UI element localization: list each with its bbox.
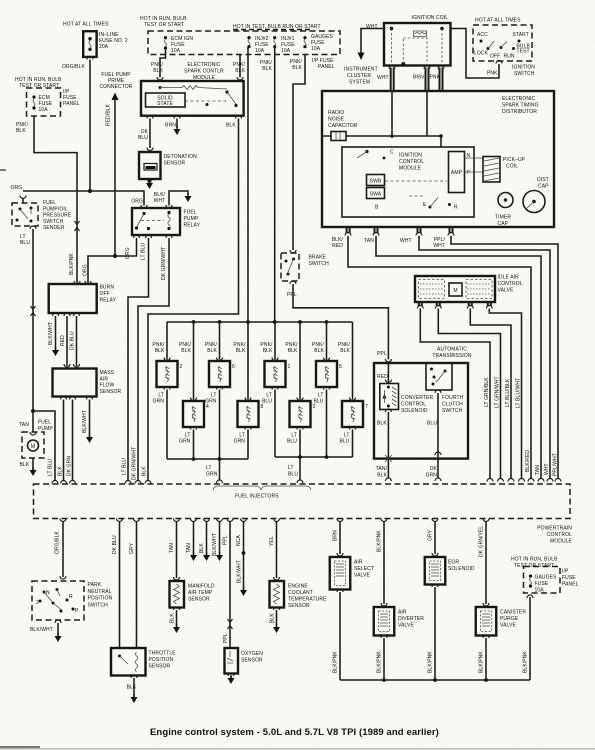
wire LT BLU collector (right injector group) — [275, 456, 353, 458]
svg-text:GRY: GRY — [428, 529, 434, 541]
svg-text:IGNITION COIL: IGNITION COIL — [412, 15, 449, 21]
svg-text:SPARK TIMING: SPARK TIMING — [502, 103, 539, 109]
svg-text:SWITCH: SWITCH — [442, 408, 463, 414]
module U1 ESC box — [141, 81, 244, 116]
wire LT GRN collector (left injector group) — [167, 458, 248, 460]
svg-text:FLOW: FLOW — [100, 383, 115, 389]
wire BLK/PNK below canister purge valve — [483, 635, 489, 638]
svg-text:WHT: WHT — [154, 198, 166, 204]
svg-text:BLK: BLK — [127, 685, 137, 691]
svg-text:BLU: BLU — [138, 135, 148, 141]
svg-text:PNK: PNK — [487, 71, 498, 77]
injector 2 — [157, 361, 183, 387]
svg-text:FOURTH: FOURTH — [442, 395, 464, 401]
node: RED/BLK joins ORG — [113, 254, 117, 258]
wire WHT dist to PCM — [419, 236, 550, 479]
ICM switch B pin — [385, 181, 451, 209]
svg-text:THROTTLE: THROTTLE — [149, 651, 177, 657]
svg-text:BRAKE: BRAKE — [309, 255, 327, 261]
svg-text:AMP: AMP — [451, 170, 463, 176]
svg-text:SELECT: SELECT — [354, 566, 374, 572]
fuse GAUGES (top) — [303, 36, 306, 48]
connector at converter box top — [385, 359, 391, 362]
node: bus junction — [325, 320, 329, 324]
wire injector riser — [193, 322, 195, 400]
svg-text:MANIFOLD: MANIFOLD — [188, 584, 215, 590]
svg-text:POSITION: POSITION — [149, 657, 174, 663]
svg-text:COOLANT: COOLANT — [288, 590, 313, 596]
svg-text:GRN: GRN — [153, 399, 165, 405]
svg-text:SENSOR: SENSOR — [241, 658, 263, 664]
injector 8 — [238, 401, 264, 427]
svg-text:C: C — [390, 150, 394, 156]
ground below fuel pump — [32, 458, 34, 470]
svg-text:IGNITION: IGNITION — [512, 65, 535, 71]
wire injector riser — [247, 322, 249, 400]
svg-text:NOISE: NOISE — [328, 117, 345, 123]
svg-text:BLU: BLU — [427, 421, 437, 427]
svg-text:VALVE: VALVE — [354, 573, 370, 579]
svg-text:TAN: TAN — [169, 543, 175, 553]
svg-text:GRN: GRN — [234, 439, 246, 445]
connector below fuse F2 — [87, 57, 93, 60]
wire PNK/BLK to ESC module right input — [239, 55, 241, 78]
burn-off relay bottom connectors — [53, 313, 59, 316]
coil secondary stems to distributor — [391, 68, 443, 92]
svg-text:BRN: BRN — [333, 530, 339, 541]
svg-text:DK BLU: DK BLU — [112, 535, 118, 554]
wire BLK below ECT + ground — [274, 607, 280, 610]
svg-text:BLK/PNK: BLK/PNK — [333, 651, 339, 673]
wire capacitor feed line — [322, 136, 441, 147]
svg-text:PPL: PPL — [287, 292, 297, 298]
wire PPL PCM to oxygen sensor — [227, 519, 233, 522]
svg-text:BLK/PNK: BLK/PNK — [428, 651, 434, 673]
svg-text:GRY: GRY — [129, 542, 135, 554]
svg-text:TAN: TAN — [186, 543, 192, 553]
wire ORG/BLK from fuse F2 down to ORG node — [89, 60, 91, 192]
switch: park neutral position switch dashed box — [32, 581, 84, 620]
svg-text:DK GRN/WHT: DK GRN/WHT — [132, 447, 138, 480]
svg-text:BLU: BLU — [287, 439, 297, 445]
sensor: manifold air temp sensor box — [170, 581, 185, 608]
svg-text:CONNECTOR: CONNECTOR — [99, 84, 132, 90]
svg-text:BLK: BLK — [377, 473, 387, 479]
svg-text:ELECTRONIC: ELECTRONIC — [502, 96, 536, 102]
relay interior — [135, 211, 171, 230]
svg-text:RED: RED — [332, 243, 343, 249]
svg-text:CAP: CAP — [498, 221, 509, 227]
svg-text:FUSE: FUSE — [562, 575, 576, 581]
wire PNK/BLK from ECM fuse jog to x77 down to burn-off relay — [34, 116, 77, 284]
injector 7 — [342, 401, 368, 427]
wire injector riser — [326, 322, 328, 360]
node: fuel pump junction — [31, 409, 35, 413]
distributor bottom stems — [347, 227, 453, 233]
wire BRN PCM to air select valve — [337, 519, 343, 522]
svg-text:HOT AT ALL TIMES: HOT AT ALL TIMES — [63, 22, 109, 28]
wire BLK/WHT stub with down arrow — [169, 191, 188, 206]
svg-text:SYSTEM: SYSTEM — [349, 80, 370, 86]
connector TAN/BLK into PCM — [385, 478, 391, 481]
svg-text:P: P — [75, 608, 79, 614]
wire BLK/PNK common ground bus — [340, 679, 530, 681]
svg-text:HOT AT ALL TIMES: HOT AT ALL TIMES — [475, 18, 521, 24]
wire injector lower lead — [217, 387, 223, 390]
wire PNK/BLK injector feed bus — [167, 321, 353, 323]
svg-text:BLK: BLK — [263, 348, 273, 354]
svg-text:10A: 10A — [311, 46, 321, 52]
svg-text:PPL: PPL — [223, 535, 229, 545]
svg-text:LT BLU/WHT: LT BLU/WHT — [516, 378, 522, 408]
svg-text:10A: 10A — [535, 588, 545, 594]
svg-text:RUN: RUN — [504, 54, 515, 60]
svg-text:GRN: GRN — [179, 439, 191, 445]
fuse ECM IGN — [164, 36, 167, 50]
svg-text:ORG/BLK: ORG/BLK — [55, 531, 61, 554]
svg-text:IDLE AIR: IDLE AIR — [498, 275, 520, 281]
svg-text:BLK: BLK — [170, 613, 176, 623]
svg-text:FUSE: FUSE — [535, 581, 549, 587]
svg-text:POWERTRAIN: POWERTRAIN — [537, 526, 572, 532]
svg-text:TAN/: TAN/ — [376, 466, 388, 472]
svg-text:ENGINE: ENGINE — [288, 584, 308, 590]
module: powertrain control module dashed band — [34, 484, 571, 519]
svg-text:POSITION: POSITION — [88, 596, 113, 602]
svg-text:PPL: PPL — [223, 633, 229, 643]
svg-text:2: 2 — [36, 600, 39, 606]
svg-text:AIR TEMP: AIR TEMP — [188, 590, 213, 596]
wire injector riser — [219, 322, 221, 360]
wire BLK solenoid to box edge and PCM — [385, 409, 392, 479]
svg-text:ORG: ORG — [125, 247, 131, 259]
svg-text:MODULE: MODULE — [550, 539, 573, 545]
injector 5 — [316, 361, 342, 387]
svg-text:SOLENOID: SOLENOID — [401, 408, 428, 414]
fuse panel dashed box (ECM IGN / INJ fuses) — [148, 31, 340, 55]
svg-text:WHT: WHT — [544, 463, 550, 475]
node: bus junction — [298, 320, 302, 324]
svg-text:MASS: MASS — [100, 370, 115, 376]
svg-text:LT GRN/BLK: LT GRN/BLK — [484, 377, 490, 407]
wire BLK/PNK below air diverter valve — [381, 635, 387, 638]
wire injector lower lead — [164, 387, 170, 390]
node: bus junction — [192, 320, 196, 324]
wire LT GRN drop to PCM — [219, 459, 221, 481]
relay coil box SWA — [367, 188, 385, 199]
wire BLK from ESC jog left down to PCM — [148, 119, 239, 482]
svg-text:WHT: WHT — [400, 238, 412, 244]
svg-text:6: 6 — [232, 364, 235, 370]
connector below oil switch — [30, 226, 36, 229]
svg-text:RADIO: RADIO — [328, 110, 344, 116]
svg-text:3: 3 — [313, 404, 316, 410]
svg-text:R: R — [69, 594, 73, 600]
svg-text:LT BLU/BLK: LT BLU/BLK — [505, 378, 511, 407]
svg-text:BLU: BLU — [288, 472, 298, 478]
wire LT BLU MAF to PCM — [63, 400, 65, 482]
wire up to gauges fuse — [529, 597, 531, 680]
fuse F2 in-line fuse no.2 box — [83, 31, 96, 57]
svg-text:BLK/PNK: BLK/PNK — [479, 651, 485, 673]
fuse ECM dashed I/P panel box — [27, 88, 61, 116]
svg-text:DK GRN/WHT: DK GRN/WHT — [161, 247, 167, 280]
ignition switch interior — [480, 40, 521, 51]
wire WHT stem into distributor — [391, 91, 393, 136]
svg-text:SWA: SWA — [370, 192, 382, 198]
fuse GAUGES dashed box (bottom) — [524, 567, 561, 594]
IAC bottom stems + connectors — [419, 302, 491, 306]
svg-text:TEMPERATURE: TEMPERATURE — [288, 597, 327, 603]
svg-text:SWITCH: SWITCH — [43, 219, 64, 225]
svg-text:BLK: BLK — [155, 348, 165, 354]
wire injector lower lead — [191, 427, 197, 430]
svg-text:COIL: COIL — [506, 164, 518, 170]
svg-text:PPL/WHT: PPL/WHT — [553, 453, 559, 476]
svg-text:CANISTER: CANISTER — [500, 610, 526, 616]
wire DK BLU to detonation sensor — [149, 119, 151, 149]
svg-text:TIMER: TIMER — [495, 215, 511, 221]
svg-text:CONTROL: CONTROL — [401, 402, 426, 408]
svg-text:LT GRN/WHT: LT GRN/WHT — [495, 376, 501, 408]
capacitor C1 radio noise capacitor — [331, 132, 346, 141]
wire IAC C to PCM — [470, 309, 511, 480]
wire DK GRN clutch switch to PCM — [435, 390, 441, 481]
pick-up coil box — [483, 157, 500, 183]
svg-text:LT: LT — [288, 465, 294, 471]
svg-text:DK GRN/YEL: DK GRN/YEL — [479, 526, 485, 557]
svg-text:ELECTRONIC: ELECTRONIC — [187, 62, 221, 68]
svg-text:BLK/WHT: BLK/WHT — [48, 322, 54, 345]
wire branch to LT BLU PCM drop — [33, 411, 55, 481]
svg-text:1: 1 — [288, 364, 291, 370]
wire GRY PCM to TPS — [134, 519, 140, 522]
svg-text:10A: 10A — [281, 48, 291, 54]
svg-text:NCA: NCA — [236, 535, 242, 546]
fuse INJ#2 — [247, 36, 250, 48]
svg-text:7: 7 — [365, 404, 368, 410]
wire IAC A to PCM — [420, 309, 490, 480]
svg-text:GRN: GRN — [206, 472, 218, 478]
svg-text:OFF: OFF — [490, 54, 500, 60]
svg-text:FUEL: FUEL — [184, 210, 197, 216]
svg-text:PANEL: PANEL — [63, 101, 80, 107]
svg-text:PICK–UP: PICK–UP — [503, 157, 526, 163]
svg-text:MODULE: MODULE — [399, 166, 422, 172]
wire injector lower lead — [245, 427, 251, 430]
svg-text:Engine control system - 5.0L a: Engine control system - 5.0L and 5.7L V8… — [150, 727, 439, 738]
wire into fuel pump — [32, 411, 34, 432]
svg-text:CLUTCH: CLUTCH — [442, 402, 463, 408]
valve: canister purge valve — [476, 607, 497, 636]
wire LT BLU drop to PCM — [299, 457, 301, 481]
svg-text:RED: RED — [377, 374, 388, 380]
wire from gauges fuse down-jog to brake switch — [293, 55, 305, 251]
wire PNK/BLK fuse to ESC module — [160, 48, 166, 78]
svg-text:LOCK: LOCK — [474, 51, 489, 57]
wire ORG relay to burn-off relay — [88, 238, 137, 284]
wire TAN PCM to MAT sensor — [174, 519, 180, 522]
svg-text:CONTROL: CONTROL — [547, 532, 572, 538]
node: bus junction — [218, 320, 222, 324]
svg-text:AIR: AIR — [398, 610, 407, 616]
wire YEL PCM to ECT sensor — [274, 519, 280, 522]
svg-text:OFF: OFF — [100, 291, 110, 297]
svg-text:SOLENOID: SOLENOID — [448, 566, 475, 572]
svg-text:DIST: DIST — [537, 177, 549, 183]
svg-text:R: R — [454, 205, 458, 211]
wire TAN stub + ground arrow — [191, 519, 197, 522]
svg-text:ORG: ORG — [131, 199, 143, 205]
svg-text:SPARK CONTLR: SPARK CONTLR — [184, 69, 224, 75]
svg-text:SENSOR: SENSOR — [149, 664, 171, 670]
distributor cap circle — [523, 191, 545, 213]
connector below brake switch — [290, 281, 296, 284]
svg-text:PRESSURE: PRESSURE — [43, 213, 72, 219]
svg-text:SENSOR: SENSOR — [100, 389, 122, 395]
svg-text:10A: 10A — [39, 107, 49, 113]
svg-text:FUEL: FUEL — [43, 200, 56, 206]
svg-text:10A: 10A — [255, 48, 265, 54]
wire injector lower lead — [297, 427, 303, 430]
injector 3 — [290, 401, 316, 427]
svg-text:TRANSMISSION: TRANSMISSION — [432, 353, 472, 359]
wire LT BLU relay jog to PCM — [128, 238, 149, 481]
injector 4 — [183, 401, 209, 427]
wire IAC B to PCM — [438, 309, 500, 480]
svg-text:PUMP: PUMP — [184, 216, 199, 222]
wire DK GRN/WHT relay jog to PCM — [138, 238, 169, 481]
svg-text:LT BLU: LT BLU — [48, 459, 54, 476]
svg-text:DIVERTER: DIVERTER — [398, 616, 424, 622]
svg-text:N: N — [46, 590, 50, 596]
svg-text:SENSOR: SENSOR — [164, 161, 186, 167]
svg-text:20A: 20A — [99, 44, 109, 50]
wire injector riser — [274, 322, 276, 360]
svg-text:WHT: WHT — [377, 75, 389, 81]
MAF bottom connectors — [61, 397, 67, 400]
svg-text:BRN: BRN — [413, 75, 424, 81]
svg-text:GRN: GRN — [426, 473, 438, 479]
svg-text:RELAY: RELAY — [184, 223, 201, 229]
svg-text:BLK: BLK — [314, 348, 324, 354]
valve: air select valve — [330, 557, 351, 590]
wire BLK stub + ground arrow — [204, 519, 210, 522]
svg-text:BLK: BLK — [262, 66, 272, 72]
wire IAC D to PCM — [489, 309, 521, 480]
wire DK BLU burn-off to MAF — [76, 316, 78, 366]
svg-text:BLK: BLK — [199, 543, 205, 553]
svg-text:TEST OR START: TEST OR START — [144, 22, 184, 28]
svg-text:BLK: BLK — [340, 348, 350, 354]
svg-text:STATE: STATE — [157, 101, 173, 107]
svg-text:10A: 10A — [171, 48, 181, 54]
svg-text:SENSOR: SENSOR — [188, 597, 210, 603]
svg-text:BLK/PNK: BLK/PNK — [377, 530, 383, 552]
svg-text:BLU: BLU — [262, 399, 272, 405]
node: ORG junction dot at in-line fuse wire — [88, 189, 92, 193]
svg-text:BLK: BLK — [58, 466, 64, 476]
wire BRN stem into module — [426, 91, 428, 136]
svg-text:PURGE: PURGE — [500, 616, 519, 622]
wire injector riser — [352, 322, 354, 400]
wire DK BLU PCM to TPS — [117, 519, 123, 522]
sensor: detonation sensor — [139, 152, 161, 179]
svg-text:BLU: BLU — [339, 439, 349, 445]
connector below ignition switch — [496, 61, 502, 64]
wire ORG/BLK PCM to park neutral switch — [60, 519, 66, 522]
svg-text:DK: DK — [430, 466, 438, 472]
svg-text:CLUSTER: CLUSTER — [347, 73, 371, 79]
wire RED into solenoid — [387, 363, 389, 384]
wire GRY PCM to EGR solenoid — [432, 519, 438, 522]
svg-text:EGR: EGR — [448, 560, 459, 566]
motor M fuel pump dashed box — [22, 432, 44, 458]
injector 6 — [209, 361, 235, 387]
svg-text:VALVE: VALVE — [500, 623, 516, 629]
svg-text:LT BLU: LT BLU — [141, 243, 147, 260]
wire LT BLU oil switch down to fuel pump node — [32, 229, 34, 411]
svg-text:TAN: TAN — [535, 465, 541, 475]
svg-text:BLK/PNK: BLK/PNK — [523, 651, 529, 673]
sensor: mass air flow sensor box — [53, 369, 97, 397]
in-line connector on LT BLU wire — [31, 306, 36, 316]
svg-text:FUEL INJECTORS: FUEL INJECTORS — [235, 494, 279, 500]
wire injector riser — [166, 322, 168, 360]
svg-text:WHT: WHT — [433, 243, 445, 249]
sensor: oxygen sensor box — [225, 648, 239, 674]
svg-text:IGNITION: IGNITION — [399, 153, 422, 159]
wire PPL/WHT dist to PCM — [451, 236, 558, 479]
svg-text:PNK: PNK — [430, 75, 441, 81]
wires AMP to pick-up coil — [465, 157, 484, 159]
wire BLK below MAT + ground — [174, 607, 180, 610]
wire PPL brake switch to converter control circuit — [293, 284, 388, 360]
svg-text:PARK: PARK — [88, 582, 102, 588]
wire PNK/BLK INJ#1 fuse down to injector bus — [274, 47, 276, 322]
wire BLK/WHT MAF stub to ground arrow — [89, 400, 91, 438]
svg-text:CAPACITOR: CAPACITOR — [328, 123, 358, 129]
svg-text:BLK: BLK — [288, 348, 298, 354]
wire BLK/WHT below switch + ground — [55, 620, 61, 623]
svg-text:M: M — [453, 288, 457, 294]
wire RED burn-off to MAF — [66, 316, 68, 366]
svg-text:VALVE: VALVE — [498, 288, 514, 294]
svg-text:AIR: AIR — [100, 376, 109, 382]
coil interior — [390, 27, 444, 66]
wire BLK/PNK below air select valve — [337, 589, 343, 592]
relay K2 burn off relay box — [49, 284, 97, 313]
connectors into PCM top — [52, 481, 58, 484]
svg-text:CAP: CAP — [538, 184, 549, 190]
svg-text:BRN: BRN — [165, 123, 176, 129]
svg-text:LT: LT — [206, 465, 212, 471]
relay coil box SWB — [367, 175, 385, 186]
svg-text:M: M — [31, 444, 35, 450]
injector 1 — [265, 361, 291, 387]
svg-text:ORG: ORG — [83, 264, 89, 276]
switch: fourth clutch switch box — [426, 363, 452, 390]
svg-text:DISTRIBUTOR: DISTRIBUTOR — [502, 109, 537, 115]
wire coil right to ignition switch — [452, 29, 500, 79]
brace: fuel injectors group — [213, 486, 311, 490]
svg-text:INSTRUMENT: INSTRUMENT — [344, 67, 378, 73]
svg-text:BLK/WHT: BLK/WHT — [212, 533, 218, 556]
distributor box: electronic spark timing distributor — [322, 91, 554, 227]
svg-text:VALVE: VALVE — [398, 623, 414, 629]
timer cap circle — [498, 193, 513, 208]
coil T1 ignition coil box — [384, 23, 451, 66]
